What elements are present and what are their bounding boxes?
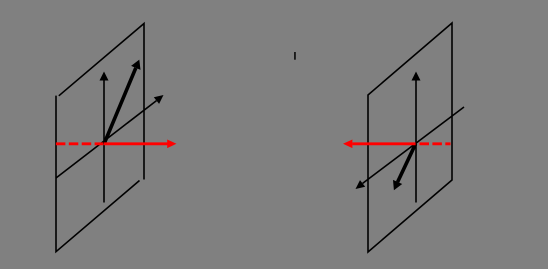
left thick arrow [104,60,141,144]
right red solid arrow [343,140,416,149]
left red dashed line [56,142,103,145]
right vertical arrow [412,72,421,203]
right thick arrow [393,144,416,190]
right red dashed line [420,142,451,145]
right oblique thin arrow through centre [356,107,465,189]
left oblique thin arrow through centre [56,95,164,178]
left vertical arrow [100,72,109,203]
text cursor tick [294,52,296,60]
left red solid arrow [104,140,177,149]
left plane outline [56,24,144,252]
right plane outline [368,23,452,252]
